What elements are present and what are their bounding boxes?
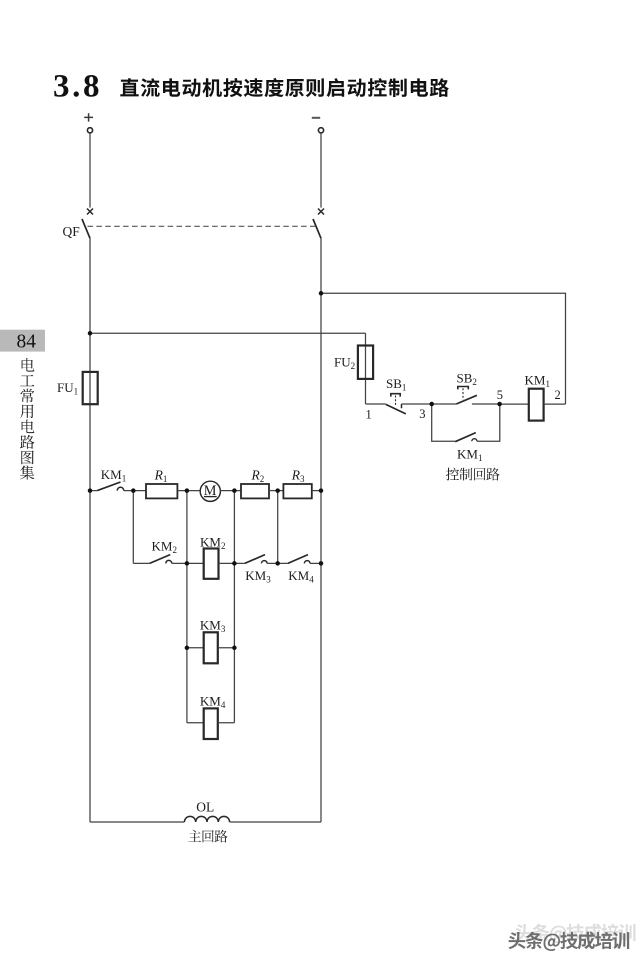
fuse FU1 bbox=[83, 372, 98, 404]
wire bottom right bbox=[230, 821, 321, 823]
sidebar text 电工常用电路图集 bbox=[20, 358, 34, 480]
motor M bbox=[200, 481, 220, 501]
wire FU2 to SB1 bbox=[366, 403, 386, 405]
wire left bus lower bbox=[89, 238, 91, 822]
wire KM4 contact to right bus bbox=[310, 562, 321, 564]
junction dot 12 bbox=[275, 561, 280, 566]
svg-text:OL: OL bbox=[196, 800, 214, 815]
wire control top bbox=[321, 293, 566, 404]
page number box 84 bbox=[0, 330, 45, 353]
junction dot 13 bbox=[185, 646, 190, 651]
wire coil KM1 to right vertical bbox=[544, 403, 566, 405]
label 主回路 bbox=[188, 830, 227, 843]
wire branch x278 bbox=[277, 491, 279, 564]
svg-text:5: 5 bbox=[497, 388, 503, 402]
wire left bus upper bbox=[89, 133, 91, 208]
wire branch x133 bbox=[132, 491, 134, 564]
junction dot 1 bbox=[88, 331, 93, 336]
wire R2 to R3 bbox=[269, 490, 283, 492]
circuit breaker QF right pole bbox=[313, 209, 324, 239]
wire FU2 drop bbox=[365, 333, 367, 404]
wire row4 left stub bbox=[187, 722, 204, 724]
junction dot 15 bbox=[429, 402, 434, 407]
wire R1 to motor bbox=[177, 490, 200, 492]
wire bottom left bbox=[90, 821, 184, 823]
junction dot 6 bbox=[275, 488, 280, 493]
node + terminal left bbox=[84, 113, 93, 133]
svg-text:1: 1 bbox=[366, 407, 372, 421]
svg-text:3.8: 3.8 bbox=[53, 69, 100, 105]
wire self-hold branch bbox=[432, 404, 456, 441]
resistor R1 bbox=[146, 484, 177, 498]
junction dot 4 bbox=[185, 488, 190, 493]
wire row2 left stub bbox=[133, 562, 149, 564]
resistor R3 bbox=[283, 484, 311, 498]
wire SB2 to node5 bbox=[472, 403, 500, 405]
junction dot 7 bbox=[319, 488, 324, 493]
wire row1 left bbox=[90, 490, 97, 492]
contact KM2 bbox=[150, 555, 172, 564]
junction dot 9 bbox=[319, 561, 324, 566]
coil KM2 bbox=[204, 549, 219, 579]
wire KM3 contact to x278 bbox=[267, 562, 288, 564]
wire KM1 to R1 bbox=[124, 490, 146, 492]
wire KM2 contact to coil bbox=[172, 562, 204, 564]
wire control feed horizontal bbox=[90, 332, 366, 334]
wire row3 left stub bbox=[187, 647, 204, 649]
wire right bus lower bbox=[320, 238, 322, 822]
junction dot 14 bbox=[232, 646, 237, 651]
watermark ghost 头条@技成培训 bbox=[515, 924, 636, 943]
wire row4 right stub bbox=[218, 722, 235, 724]
overload heater OL bbox=[184, 816, 229, 822]
wire node5 to coil KM1 bbox=[500, 403, 529, 405]
junction dot 16 bbox=[497, 402, 502, 407]
wire node3 to SB2 bbox=[432, 403, 457, 405]
wire branch x187 bbox=[186, 491, 188, 723]
wire SB1 to node3 bbox=[402, 403, 432, 405]
QF linkage dashed bbox=[88, 225, 318, 227]
svg-text:3: 3 bbox=[419, 407, 425, 421]
junction dot 10 bbox=[185, 561, 190, 566]
title 直流电动机按速度原则启动控制电路 bbox=[120, 78, 449, 97]
junction dot 11 bbox=[232, 561, 237, 566]
coil KM3 bbox=[204, 632, 218, 663]
wire row3 right stub bbox=[218, 647, 235, 649]
wire aux contact to node5 riser bbox=[477, 404, 500, 441]
coil KM1 bbox=[529, 389, 544, 421]
wire R3 to right bus bbox=[312, 490, 321, 492]
wire branch x234 bbox=[233, 491, 235, 723]
fuse FU2 bbox=[358, 346, 373, 379]
resistor R2 bbox=[241, 484, 269, 498]
contact KM1 auxiliary (NO) bbox=[455, 433, 477, 442]
junction dot 5 bbox=[232, 488, 237, 493]
svg-text:QF: QF bbox=[63, 224, 81, 239]
contact KM4 bbox=[288, 555, 310, 564]
circuit breaker QF left pole bbox=[82, 209, 93, 239]
watermark 头条@技成培训 bbox=[508, 932, 629, 951]
coil KM4 bbox=[204, 708, 218, 739]
wire right bus upper bbox=[320, 133, 322, 208]
contact KM1 main bbox=[97, 482, 124, 491]
svg-text:2: 2 bbox=[555, 388, 561, 402]
junction dot 2 bbox=[88, 488, 93, 493]
junction dot 3 bbox=[131, 488, 136, 493]
junction dot 8 bbox=[319, 291, 324, 296]
node - terminal right bbox=[312, 118, 324, 133]
contact KM3 bbox=[245, 555, 267, 564]
pushbutton SB1 (NC) bbox=[386, 394, 406, 414]
svg-text:84: 84 bbox=[17, 331, 37, 352]
pushbutton SB2 (NO) bbox=[456, 387, 477, 405]
wire motor to R2 bbox=[220, 490, 241, 492]
label 控制回路 bbox=[446, 468, 500, 481]
wire KM2 coil to x234 bbox=[219, 562, 245, 564]
